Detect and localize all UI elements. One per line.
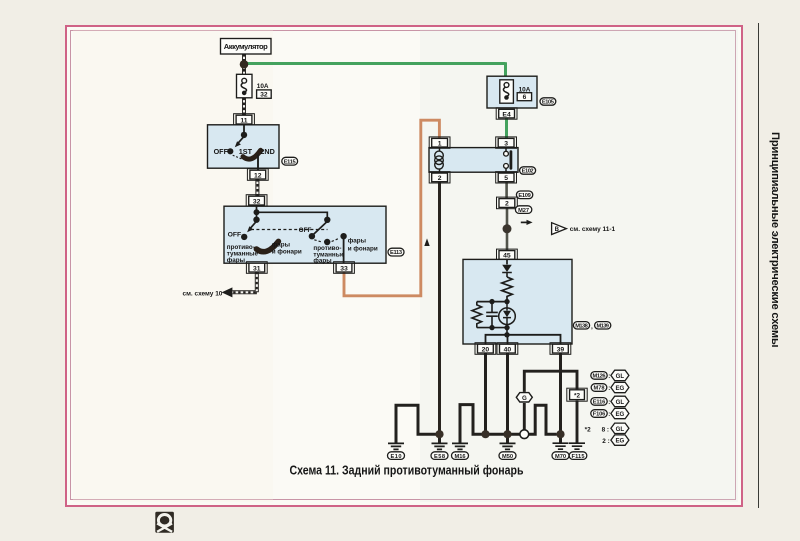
wire: orange from switch 33 to relay pin 1 xyxy=(344,120,439,296)
right arm to OFF xyxy=(314,221,328,234)
left lever arc xyxy=(256,241,278,251)
flow arrow on orange wire xyxy=(424,238,429,246)
left switch labels xyxy=(227,231,302,264)
legend row *2 B GL xyxy=(602,423,629,433)
lamp LED symbol xyxy=(499,302,516,328)
svg-text:11: 11 xyxy=(240,117,247,124)
legend row M78 EG xyxy=(591,382,629,392)
fuse box 10A 6 E105 xyxy=(487,76,537,108)
svg-text:,: , xyxy=(591,324,593,331)
connector box *2 xyxy=(567,388,587,401)
capacitor C1 xyxy=(486,302,498,328)
svg-text:E109: E109 xyxy=(518,193,531,199)
connector 20 xyxy=(475,343,496,355)
wire into light switch xyxy=(257,206,328,218)
wire ignition to connector 12 xyxy=(257,155,259,170)
ignition switch box E115 xyxy=(208,125,280,168)
svg-text:2 :: 2 : xyxy=(602,438,609,445)
open joint connector circle xyxy=(520,430,529,439)
connector 5 xyxy=(496,172,517,183)
mechanical link dashed xyxy=(251,229,328,231)
connector 33 xyxy=(334,262,355,274)
svg-text:31: 31 xyxy=(253,265,261,272)
right switch pivot xyxy=(324,217,330,223)
svg-text:M70: M70 xyxy=(555,454,566,460)
relay contact xyxy=(504,148,511,173)
relay box E102 xyxy=(429,148,518,173)
caption xyxy=(290,462,524,477)
diode D1 xyxy=(502,265,512,277)
svg-text:OFF: OFF xyxy=(214,147,229,156)
ground M70 xyxy=(552,443,569,460)
svg-text:M138: M138 xyxy=(575,323,588,329)
svg-text:8 :: 8 : xyxy=(602,426,609,433)
fuse 10A 32 xyxy=(237,74,272,98)
svg-text:*2: *2 xyxy=(574,393,580,400)
legend row F106 EG xyxy=(591,408,629,418)
svg-text:M126: M126 xyxy=(593,374,606,380)
svg-text:2ND: 2ND xyxy=(260,147,274,156)
oval E113 xyxy=(388,248,404,256)
connector 3 xyxy=(496,137,517,148)
bottom joining wire xyxy=(477,325,510,335)
svg-text:E4: E4 xyxy=(502,111,511,118)
svg-text:6: 6 xyxy=(523,94,527,101)
legend row M126 GL xyxy=(591,370,629,380)
battery box xyxy=(221,39,272,55)
wire: jog ground M16 xyxy=(460,405,482,444)
oval E109 xyxy=(516,191,532,199)
connector 31 xyxy=(246,262,267,274)
ignition position labels xyxy=(214,147,275,156)
right OFF contact xyxy=(309,233,315,239)
ovals M138 M139 xyxy=(573,322,610,331)
ground M16 xyxy=(452,443,469,459)
connector 45 xyxy=(497,249,518,261)
ground M50 xyxy=(499,443,516,459)
svg-text:20: 20 xyxy=(482,346,490,353)
svg-text:фары: фары xyxy=(313,258,331,265)
svg-text:2: 2 xyxy=(505,201,509,208)
svg-text:OFF: OFF xyxy=(228,231,242,238)
svg-text:E115: E115 xyxy=(284,159,296,165)
svg-text:3: 3 xyxy=(504,140,508,147)
ignition arm arrow to OFF xyxy=(235,136,244,147)
connector 1 xyxy=(429,137,450,148)
wires: lamp connectors 20 40 39 down to ground bus xyxy=(486,353,561,434)
svg-text:EG: EG xyxy=(615,411,624,418)
svg-text:2: 2 xyxy=(438,175,442,182)
right switch labels xyxy=(299,227,378,265)
oval E115 xyxy=(282,157,298,165)
wire: gray from relay pin 5 to connector 2 and lamp pin 45 xyxy=(505,182,508,251)
svg-text:M16: M16 xyxy=(455,454,466,460)
scan tint (decorative) xyxy=(420,29,738,502)
left arm arrow xyxy=(247,221,256,232)
svg-text:фары: фары xyxy=(348,238,366,245)
rear fog lamp unit box M138 M139 xyxy=(463,259,572,344)
svg-text:см. схему 11-1: см. схему 11-1 xyxy=(570,226,616,233)
light switch box E113 xyxy=(224,206,386,263)
hexagon code G xyxy=(516,393,532,402)
svg-text:*2: *2 xyxy=(585,426,591,433)
triangle B see scheme 11-1 xyxy=(552,223,616,235)
junction node to scheme 11-1 xyxy=(503,224,512,233)
junction dots on ground bus xyxy=(435,430,564,438)
svg-text:32: 32 xyxy=(253,198,261,205)
svg-text:см. схему 10: см. схему 10 xyxy=(183,290,223,297)
connector 40 xyxy=(497,343,518,355)
svg-text::: : xyxy=(608,400,610,406)
svg-text:E102: E102 xyxy=(522,169,534,175)
svg-text:EG: EG xyxy=(615,385,624,392)
wire: striped connector 12 to 32 xyxy=(255,179,259,196)
svg-text:1ST: 1ST xyxy=(239,147,253,156)
left OFF contact xyxy=(241,234,247,240)
resistor R1 xyxy=(502,277,512,302)
svg-text:32: 32 xyxy=(260,92,268,99)
wire: striped from connector 31 to arrow see scheme 10 xyxy=(232,272,256,292)
lamp feed wire xyxy=(506,260,508,264)
ignition lever arc xyxy=(243,150,261,159)
internal bus to pins xyxy=(486,332,561,344)
ground E58 xyxy=(431,443,448,459)
svg-text::: : xyxy=(608,412,610,418)
connector 2b xyxy=(497,197,518,209)
svg-text:фары: фары xyxy=(227,257,245,264)
svg-text:1: 1 xyxy=(438,140,442,147)
light switch junction nodes xyxy=(253,209,259,223)
connector E4 xyxy=(496,108,517,119)
ignition OFF contact xyxy=(227,148,241,159)
svg-text:GL: GL xyxy=(616,373,625,380)
svg-text:33: 33 xyxy=(340,265,348,272)
svg-text:F115: F115 xyxy=(572,454,585,460)
svg-text:E58: E58 xyxy=(434,454,445,460)
oval E102 xyxy=(520,167,536,175)
svg-text:M78: M78 xyxy=(594,386,605,392)
connector 2 xyxy=(429,172,450,183)
resistor R2 xyxy=(472,302,482,328)
wire: top link to F115 through G and *2 xyxy=(524,371,577,443)
wire: black from relay pin 2 down to ground bus xyxy=(438,182,441,435)
svg-text:Аккумулятор: Аккумулятор xyxy=(224,42,268,51)
relay coil xyxy=(435,148,444,173)
svg-text:M27: M27 xyxy=(518,208,529,214)
legend row E116 GL xyxy=(591,396,629,406)
svg-text:M50: M50 xyxy=(502,454,513,460)
footnote *2 beside wire xyxy=(585,426,591,433)
svg-text:12: 12 xyxy=(254,172,262,179)
svg-text:40: 40 xyxy=(504,346,512,353)
svg-text:5: 5 xyxy=(504,175,508,182)
svg-text:39: 39 xyxy=(557,346,565,353)
svg-text:G: G xyxy=(522,395,527,402)
node J1 xyxy=(504,299,509,304)
ground E10 xyxy=(388,443,405,459)
wire: striped battery to fuse 32 and to connector 11 xyxy=(242,54,246,116)
battery junction node xyxy=(240,60,249,69)
svg-text:и фонари: и фонари xyxy=(348,245,378,252)
svg-text:и фонари: и фонари xyxy=(272,249,302,256)
svg-text:GL: GL xyxy=(616,399,625,406)
svg-text:EG: EG xyxy=(615,438,624,445)
svg-text::: : xyxy=(608,386,610,392)
legend row 2 EG xyxy=(602,435,629,445)
wire: stub to ground E58 xyxy=(438,434,441,443)
arrow to see scheme 10 xyxy=(183,287,233,297)
svg-text:M139: M139 xyxy=(596,323,609,329)
svg-text:E105: E105 xyxy=(542,100,554,106)
wire right switch to connector 33 xyxy=(343,238,345,263)
connector 39 xyxy=(550,343,571,355)
svg-text:GL: GL xyxy=(616,426,625,433)
wire: green feed battery to right fuse xyxy=(244,62,507,139)
publisher logo xyxy=(155,512,174,533)
wire: jog ground E10 xyxy=(396,405,436,443)
wire: ground bus segments xyxy=(486,434,520,443)
page frame (decorative) xyxy=(65,25,743,507)
svg-text:F106: F106 xyxy=(593,412,606,418)
svg-text:E113: E113 xyxy=(390,250,402,256)
svg-text:E116: E116 xyxy=(593,400,606,406)
connector 11 xyxy=(234,114,255,126)
svg-text::: : xyxy=(608,374,610,380)
wire: n-jog to node 39 xyxy=(529,405,561,443)
ground F115 xyxy=(569,443,587,460)
branch wire left xyxy=(477,299,507,304)
svg-text:В: В xyxy=(555,227,560,233)
ignition pivot node xyxy=(241,132,247,138)
connector 32b xyxy=(246,195,267,207)
oval M27 xyxy=(515,206,531,214)
svg-text:OFF: OFF xyxy=(299,227,312,234)
connector 12 xyxy=(247,169,268,181)
svg-text:Схема 11. Задний противотуманн: Схема 11. Задний противотуманный фонарь xyxy=(290,462,524,477)
right position contacts dashed xyxy=(314,233,347,245)
oval E105 xyxy=(540,98,556,106)
svg-text:фары: фары xyxy=(272,241,290,248)
svg-text:10A: 10A xyxy=(257,83,269,90)
branch arrow right xyxy=(521,220,533,225)
svg-text:E10: E10 xyxy=(391,454,402,460)
wire into ignition switch xyxy=(243,124,245,133)
svg-text:45: 45 xyxy=(503,253,511,260)
